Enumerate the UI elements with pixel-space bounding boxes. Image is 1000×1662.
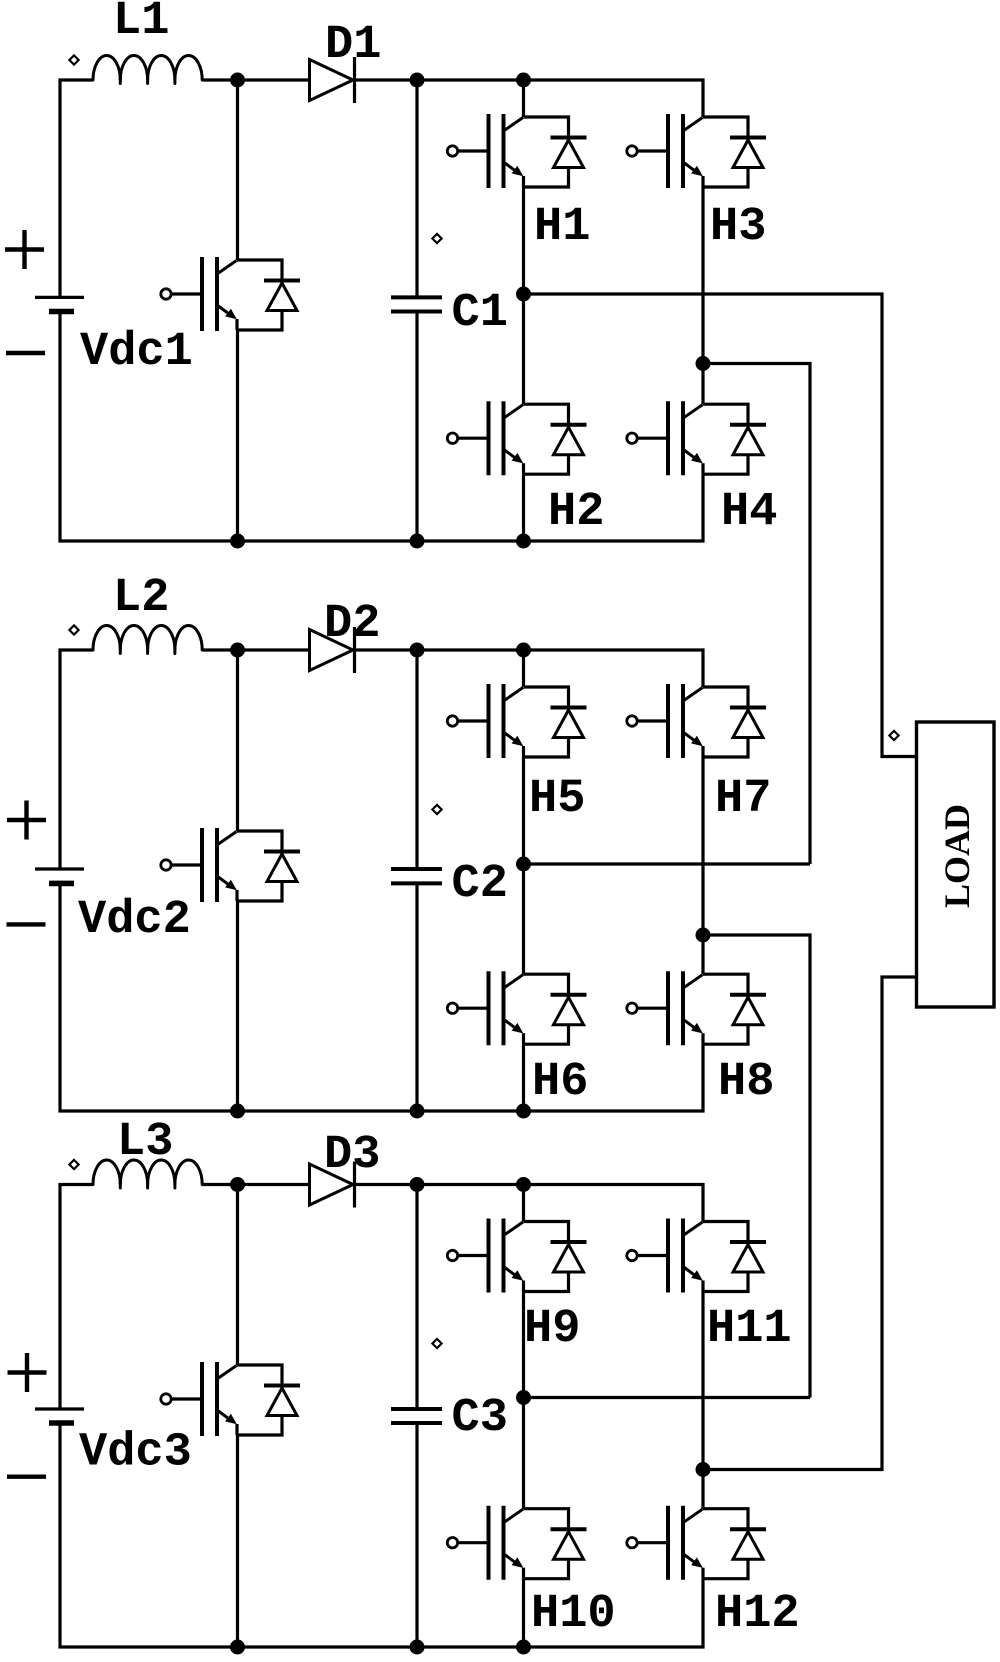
wire [236,650,239,831]
svg-text:C2: C2 [452,858,508,911]
wire [202,78,310,81]
node dot (H leg midpoint stage 3) [516,1390,531,1405]
wire [60,80,93,297]
svg-text:H8: H8 [718,1056,774,1109]
wire [522,1292,525,1398]
wire [236,1185,239,1366]
wire [701,1470,704,1509]
wire (stage1 output A to LOAD) [524,294,917,757]
svg-text:H6: H6 [532,1056,588,1109]
wire [415,80,418,297]
junction dot [230,1104,245,1119]
svg-text:C1: C1 [452,287,508,340]
svg-text:H11: H11 [707,1303,792,1356]
wire [522,650,525,687]
wire [415,650,418,869]
node dot (H leg midpoint stage 1) [516,287,531,302]
transistor Q2 (boost switch) [161,828,300,902]
svg-text:H10: H10 [531,1588,616,1641]
wire [701,757,704,935]
node dot (right leg midpoint stage 1) [696,356,711,371]
wire (stage2 output B to stage3) [703,935,810,1398]
svg-text:Vdc2: Vdc2 [78,894,191,947]
svg-text:H9: H9 [524,1303,580,1356]
wire [522,1185,525,1222]
svg-text:L3: L3 [117,1116,173,1169]
diode D2 [310,627,355,673]
wire [202,648,310,651]
svg-text:L2: L2 [113,572,169,625]
wire [522,187,525,294]
load box [917,722,995,1007]
wire [236,80,239,260]
marker diamond [432,234,441,243]
node dot (H leg midpoint stage 2) [516,857,531,872]
battery Vdc1 [35,297,84,311]
node dot (right leg midpoint stage 3) [696,1462,711,1477]
junction dot [516,643,531,658]
junction dot [516,534,531,549]
marker diamond [889,731,898,740]
wire [701,187,704,364]
transistor H2 [447,401,586,475]
transistor Q1 (boost switch) [161,257,300,331]
wire (stage1 output B to stage2) [703,364,810,865]
wire [355,80,704,117]
minus terminal Vdc2 [7,922,46,926]
wire [522,294,525,404]
wire [60,1185,93,1410]
diode D1 [310,57,355,103]
capacitor C1 [391,297,442,311]
marker diamond [69,55,78,64]
svg-text:L1: L1 [113,0,169,48]
wire (stage2 mid rail) [524,862,811,865]
junction dot [516,1104,531,1119]
wire [522,864,525,974]
transistor H8 [627,971,766,1045]
marker diamond [69,1160,78,1169]
wire [415,1423,418,1647]
wire [522,474,525,541]
transistor Q3 (boost switch) [161,1362,300,1436]
wire [60,650,93,869]
wire [522,80,525,117]
inductor L2 [93,626,202,654]
transistor H1 [447,114,586,188]
wire [355,1185,704,1222]
inductor L1 [93,56,202,84]
svg-text:LOAD: LOAD [937,804,977,908]
junction dot [516,1640,531,1655]
svg-text:D3: D3 [324,1129,380,1182]
wire [60,1423,703,1647]
diode D3 [310,1162,355,1208]
svg-text:Vdc1: Vdc1 [80,326,193,379]
svg-text:H7: H7 [715,773,771,826]
plus terminal Vdc3 [8,1353,47,1392]
transistor H12 [627,1506,766,1580]
battery Vdc3 [35,1409,84,1423]
svg-text:H1: H1 [534,201,590,254]
svg-text:H3: H3 [710,201,766,254]
marker diamond [432,805,441,814]
svg-text:H4: H4 [721,486,777,539]
wire [355,650,704,687]
wire [522,757,525,864]
junction dot [230,643,245,658]
transistor H9 [447,1219,586,1293]
junction dot [410,534,425,549]
wire [236,1435,239,1647]
transistor H5 [447,684,586,758]
transistor H11 [627,1219,766,1293]
capacitor C3 [391,1409,442,1423]
wire (stage3 mid rail) [524,1396,811,1399]
junction dot [410,73,425,88]
transistor H6 [447,971,586,1045]
wire [202,1183,310,1186]
wire [522,1044,525,1111]
wire [236,901,239,1111]
wire [60,883,703,1111]
battery Vdc2 [35,869,84,883]
junction dot [410,1104,425,1119]
junction dot [230,73,245,88]
minus terminal Vdc3 [7,1474,46,1478]
wire [60,312,703,542]
node dot (right leg midpoint stage 2) [696,928,711,943]
wire [415,1185,418,1410]
junction dot [230,1640,245,1655]
marker diamond [432,1339,441,1348]
inductor L3 [93,1160,202,1188]
minus terminal Vdc1 [6,351,45,355]
wire [236,330,239,541]
junction dot [410,1640,425,1655]
svg-text:C3: C3 [452,1392,508,1445]
transistor H7 [627,684,766,758]
transistor H3 [627,114,766,188]
wire [415,883,418,1111]
wire [522,1398,525,1509]
wire [701,364,704,405]
transistor H4 [627,401,766,475]
svg-text:D2: D2 [324,598,380,651]
plus terminal Vdc1 [5,230,44,269]
transistor H10 [447,1506,586,1580]
wire (LOAD return to stage3) [703,977,917,1470]
junction dot [516,1177,531,1192]
svg-text:Vdc3: Vdc3 [79,1427,192,1480]
svg-text:H5: H5 [529,773,585,826]
svg-text:H12: H12 [715,1588,800,1641]
wire [415,312,418,542]
svg-text:D1: D1 [325,19,381,72]
wire [522,1579,525,1647]
wire [701,935,704,974]
plus terminal Vdc2 [7,801,46,840]
junction dot [410,1177,425,1192]
capacitor C2 [391,869,442,883]
junction dot [410,643,425,658]
junction dot [230,534,245,549]
svg-text:H2: H2 [548,486,604,539]
wire [701,1292,704,1470]
marker diamond [69,625,78,634]
junction dot [516,73,531,88]
junction dot [230,1177,245,1192]
